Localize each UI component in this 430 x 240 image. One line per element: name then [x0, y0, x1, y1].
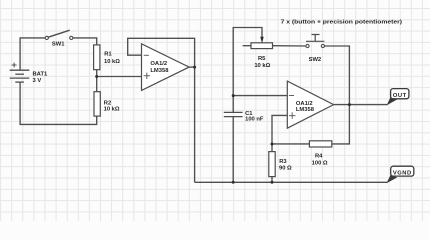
flag OUT	[391, 89, 409, 99]
svg-text:R1: R1	[104, 52, 112, 58]
wire R5 right to SW2	[273, 45, 306, 47]
wire R4 left to junction	[272, 143, 309, 145]
node U1 output junction	[193, 66, 196, 69]
op-amp U2 - input pin	[289, 95, 294, 97]
flag OUT tail	[387, 97, 397, 106]
flag VGND tail	[386, 175, 397, 184]
svg-text:VGND: VGND	[393, 170, 412, 176]
wire U2 + input to R3/R4 junction	[272, 115, 287, 144]
pushbutton SW2	[306, 35, 325, 48]
resistor R4	[309, 141, 331, 147]
wire U2 output to OUT flag	[334, 104, 388, 106]
wire U1 output down to VGND rail	[194, 67, 196, 182]
svg-text:100 Ω: 100 Ω	[312, 160, 328, 166]
resistor R1	[94, 45, 100, 70]
node divider junction	[95, 75, 98, 78]
svg-text:3 V: 3 V	[33, 78, 42, 84]
capacitor C1	[224, 112, 243, 116]
op-amp U1 + input pin	[144, 73, 150, 79]
wire SW1 to R1	[73, 38, 97, 45]
wire node A to C1 top	[232, 96, 234, 113]
flag VGND	[391, 166, 414, 176]
svg-text:OA1/2: OA1/2	[296, 101, 313, 107]
wire R5 left stub	[243, 45, 251, 47]
svg-text:OA1/2: OA1/2	[150, 61, 167, 67]
node R3 bottom rail junction	[271, 181, 274, 184]
wire junction to R3 top	[271, 144, 273, 152]
svg-text:LM358: LM358	[150, 68, 169, 74]
wire C1 bottom to VGND rail	[232, 117, 234, 183]
battery BAT1	[10, 63, 30, 83]
wire R3 bottom to VGND rail	[271, 177, 273, 183]
svg-text:R5: R5	[258, 56, 266, 62]
switch SW1	[45, 30, 73, 39]
wire battery+ to SW1	[20, 38, 45, 70]
potentiometer R5 wiper arrow	[260, 37, 264, 44]
wire R1 bottom to R2 top	[96, 70, 98, 92]
potentiometer R5	[251, 43, 273, 49]
svg-text:LM358: LM358	[296, 107, 315, 113]
op-amp U2	[287, 81, 333, 128]
node A junction at C1 top	[232, 94, 235, 97]
svg-text:R4: R4	[315, 154, 323, 160]
wire R5 wiper to node A	[233, 28, 262, 96]
wire VGND rail	[195, 181, 388, 183]
svg-text:R3: R3	[279, 159, 287, 165]
wire node A to op-amp U2 - input	[233, 95, 287, 97]
wire divider node to op-amp U1 + input	[97, 76, 142, 78]
svg-text:OUT: OUT	[393, 93, 407, 99]
node U2 output junction	[348, 103, 351, 106]
wire SW2 to output node and down to R4	[325, 46, 350, 144]
op-amp U1	[142, 44, 190, 91]
svg-text:7 x (button + precision potent: 7 x (button + precision potentiometer)	[281, 20, 403, 26]
wire R2 bottom to battery -	[20, 82, 97, 124]
resistor R2	[94, 92, 100, 116]
svg-text:SW1: SW1	[52, 42, 65, 48]
resistor R3	[269, 152, 275, 177]
op-amp U1 - input pin	[144, 54, 149, 56]
svg-text:10 kΩ: 10 kΩ	[104, 106, 120, 112]
svg-text:SW2: SW2	[309, 57, 322, 63]
svg-text:90 Ω: 90 Ω	[279, 165, 292, 171]
svg-text:BAT1: BAT1	[33, 72, 48, 78]
op-amp U2 + input pin	[289, 112, 295, 118]
svg-text:10 kΩ: 10 kΩ	[254, 63, 270, 69]
node R3 R4 junction	[271, 143, 274, 146]
wire U1 output stub	[189, 66, 195, 68]
svg-text:100 nF: 100 nF	[245, 117, 264, 123]
wire U1 feedback output to - input	[128, 38, 195, 67]
node C1 bottom rail junction	[232, 181, 235, 184]
svg-text:10 kΩ: 10 kΩ	[104, 59, 120, 65]
